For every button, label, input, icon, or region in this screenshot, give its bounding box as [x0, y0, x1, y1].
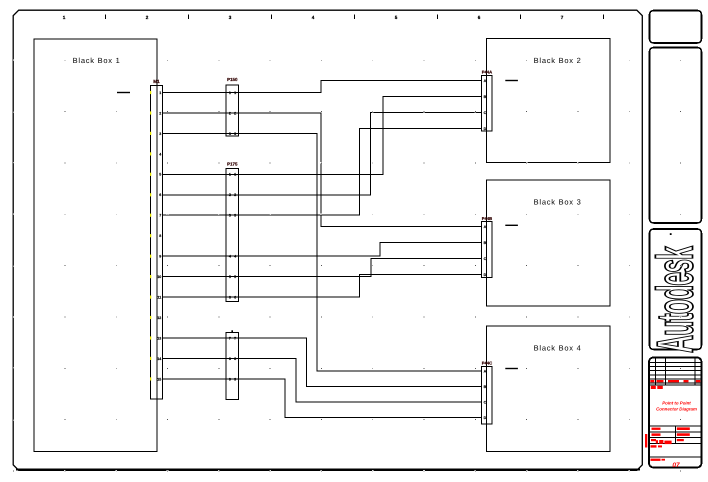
svg-text:8: 8 [229, 357, 231, 361]
svg-text:5: 5 [229, 275, 231, 279]
Black Box 3 [487, 180, 611, 306]
svg-text:2: 2 [234, 193, 236, 197]
title block lower grid [650, 426, 702, 457]
wire M1.6 to P44A.C [163, 113, 482, 196]
svg-text:7: 7 [229, 336, 231, 340]
svg-text:2: 2 [229, 193, 231, 197]
scale field red text [656, 440, 672, 444]
wire M1.9 to P44B.B [163, 243, 482, 257]
unlabeled connector top mark [231, 330, 233, 332]
svg-text:13: 13 [157, 336, 161, 340]
svg-text:15: 15 [157, 377, 161, 381]
svg-text:Black Box 2: Black Box 2 [534, 56, 582, 65]
svg-text:7: 7 [234, 336, 236, 340]
svg-text:Black Box 3: Black Box 3 [534, 198, 582, 207]
wire M1.13 to P44C.B [163, 338, 482, 387]
svg-text:1: 1 [229, 173, 231, 177]
svg-text:Connector Diagram: Connector Diagram [656, 406, 697, 411]
red entries below [651, 445, 663, 447]
svg-text:P175: P175 [227, 162, 238, 167]
svg-text:14: 14 [157, 357, 161, 361]
svg-text:C: C [484, 257, 487, 261]
wire M1.11 to P44B.D [163, 275, 482, 298]
wire M1.2 to P44B.A [163, 113, 482, 227]
svg-text:Black Box 4: Black Box 4 [534, 344, 582, 353]
svg-text:A: A [484, 369, 487, 373]
svg-text:3: 3 [234, 214, 236, 218]
svg-text:6: 6 [229, 296, 231, 300]
svg-text:9: 9 [229, 377, 231, 381]
svg-text:2: 2 [234, 111, 236, 115]
right panel tall box [650, 48, 702, 224]
svg-text:3: 3 [234, 132, 236, 136]
Black Box 1 internal wire stub [117, 92, 130, 93]
svg-text:Point to Point: Point to Point [662, 401, 691, 406]
drawing title: Point to Point Connector Diagram [656, 401, 697, 412]
svg-text:D: D [484, 416, 487, 420]
svg-text:3: 3 [229, 132, 231, 136]
revision table red row entries [650, 380, 700, 382]
inline connector P150 [226, 77, 239, 136]
svg-text:2: 2 [159, 111, 161, 115]
svg-text:P150: P150 [227, 77, 238, 82]
svg-text:11: 11 [157, 296, 161, 300]
svg-text:8: 8 [234, 357, 236, 361]
svg-text:10: 10 [157, 275, 161, 279]
svg-text:1: 1 [229, 91, 231, 95]
revision table [650, 358, 702, 385]
svg-text:D: D [484, 127, 487, 131]
svg-text:5: 5 [159, 173, 161, 177]
svg-text:4: 4 [159, 152, 161, 156]
right panel small box [650, 11, 702, 44]
svg-text:7: 7 [561, 15, 564, 20]
svg-text:B: B [484, 95, 487, 99]
svg-text:8: 8 [159, 234, 161, 238]
svg-text:1: 1 [159, 91, 161, 95]
wire M1.14 to P44C.C [163, 359, 482, 403]
svg-text:A: A [484, 225, 487, 229]
Black Box 1 [34, 39, 157, 452]
inline connector P175 [226, 162, 239, 302]
svg-text:P44A: P44A [482, 70, 492, 75]
svg-text:C: C [484, 400, 487, 404]
svg-text:07: 07 [672, 462, 680, 469]
svg-text:3: 3 [229, 214, 231, 218]
Autodesk logo box [647, 229, 704, 353]
svg-text:3: 3 [229, 15, 232, 20]
svg-text:A: A [484, 79, 487, 83]
Black Box 2 [487, 39, 611, 163]
wire M1.10 to P44B.C [163, 259, 482, 277]
svg-text:B: B [484, 241, 487, 245]
svg-text:2: 2 [146, 15, 149, 20]
svg-text:7: 7 [159, 214, 161, 218]
svg-text:P44C: P44C [482, 360, 492, 365]
red revision bar on frame edge [645, 434, 647, 448]
svg-text:6: 6 [478, 15, 481, 20]
wire M1.3 to P44C.A [163, 134, 482, 372]
connector P44C on Black Box 4 [482, 360, 493, 424]
svg-text:1: 1 [63, 15, 66, 20]
svg-text:Autodesk: Autodesk [647, 246, 704, 353]
svg-text:1: 1 [234, 91, 236, 95]
svg-text:C: C [484, 111, 487, 115]
wire M1.1 to P44A.A [163, 81, 482, 93]
svg-text:3: 3 [159, 132, 161, 136]
wire M1.7 to P44A.D [163, 129, 482, 216]
top ruler zone ticks and numbers [63, 15, 604, 21]
svg-text:5: 5 [395, 15, 398, 20]
connector M1 on Black Box 1 [150, 79, 162, 399]
red stamp squares [651, 386, 663, 389]
Black Box 4 internal wire stub [505, 368, 518, 369]
connector P44A on Black Box 2 [482, 70, 493, 131]
svg-text:6: 6 [159, 193, 161, 197]
svg-text:12: 12 [157, 316, 161, 320]
svg-text:D: D [484, 273, 487, 277]
Black Box 4 [487, 326, 611, 452]
title block box [649, 358, 702, 468]
svg-text:4: 4 [312, 15, 315, 20]
svg-text:9: 9 [159, 255, 161, 259]
wire M1.5 to P44A.B [163, 97, 482, 175]
svg-text:B: B [484, 385, 487, 389]
sheet row red label [651, 459, 666, 461]
svg-text:6: 6 [234, 296, 236, 300]
inline connector (unlabeled) [226, 333, 239, 400]
svg-text:P44B: P44B [482, 216, 492, 221]
svg-text:M1: M1 [153, 79, 160, 84]
svg-text:5: 5 [234, 275, 236, 279]
title block field labels (red) [651, 427, 690, 441]
svg-text:2: 2 [229, 111, 231, 115]
wire M1.15 to P44C.D [163, 379, 482, 418]
Black Box 2 internal wire stub [505, 80, 518, 81]
svg-text:1: 1 [234, 173, 236, 177]
Black Box 3 internal wire stub [505, 225, 518, 226]
svg-text:Black Box 1: Black Box 1 [73, 56, 121, 65]
svg-text:9: 9 [234, 377, 236, 381]
connector P44B on Black Box 3 [482, 216, 493, 278]
